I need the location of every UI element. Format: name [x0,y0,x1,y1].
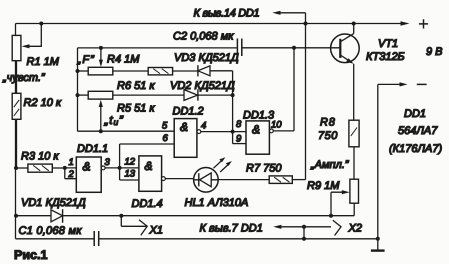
svg-text:R6 51 к: R6 51 к [117,80,155,92]
wire C2 to VT1 base [242,47,340,49]
svg-text:R2 10 к: R2 10 к [24,97,62,109]
wire VD1 bus [16,215,354,217]
wire top +9V bus [16,23,407,25]
wire pin6 feedback [120,144,175,180]
wire R5 to VD2 [113,94,184,96]
svg-text:(К176ЛА7): (К176ЛА7) [389,143,442,155]
node junction ground [376,237,380,241]
node junction X1 [119,214,123,218]
node junction VT1 collector / bus [352,22,356,26]
node junction bottom connector [302,237,306,241]
diode VD1 KD521D [51,210,63,222]
svg-text:1: 1 [69,157,74,168]
svg-text:9 В: 9 В [426,46,443,58]
svg-text:„Ампл.”: „Ампл.” [310,159,350,171]
wire DD1.3 out up to VT1 base [273,48,294,131]
wire bottom bus left [16,238,95,240]
node + terminal arrow [401,21,410,25]
svg-text:DD1.1: DD1.1 [77,143,108,155]
op-amp DD1.2 NAND gate [174,119,197,158]
node junction VD2 line [231,93,235,97]
transistor VT1 KT312B [331,34,360,63]
wire X2 to bottom bus [303,227,305,239]
svg-text:8: 8 [236,119,242,130]
wire K vyv7 / X2 line [277,226,331,228]
diode VD2 KD521D [184,90,198,101]
svg-text:VT1: VT1 [378,38,398,50]
svg-text:12: 12 [125,157,136,168]
svg-text:&: & [83,160,91,174]
svg-text:R7 750: R7 750 [246,163,282,175]
svg-text:R8: R8 [320,117,336,129]
wire DD1.1 out to DD1.4 [105,167,139,169]
svg-text:„F”: „F” [77,54,96,66]
svg-text:2: 2 [68,169,75,180]
svg-text:4: 4 [201,121,206,132]
ground [371,249,385,251]
svg-text:13: 13 [125,169,136,180]
capacitor C1 [94,231,99,246]
svg-text:К выв.7 DD1: К выв.7 DD1 [200,223,263,235]
node junction left bus / R3 [14,166,18,170]
resistor R1 1M potentiometer [12,35,21,60]
svg-text:Х1: Х1 [149,225,163,237]
node junction R5 wiper [99,129,103,133]
node junction X2 top [302,225,306,229]
svg-text:К выв.14 DD1: К выв.14 DD1 [194,8,260,20]
node junction bus2 / R5 row [76,93,80,97]
svg-text:VD3 КД521Д: VD3 КД521Д [174,52,239,64]
node junction R1 wiper / top bus [39,22,43,26]
svg-text:DD1.3: DD1.3 [243,110,275,122]
svg-text:VD1 КД521Д: VD1 КД521Д [21,197,86,209]
node junction R4 wiper / C2 line [99,46,103,50]
wire DD1.4 out to LED [165,178,193,180]
resistor R6 51k [148,68,172,75]
resistor R3 10k [16,167,28,169]
op-amp DD1.4 NAND gate [139,156,162,191]
svg-text:750: 750 [318,130,338,142]
node junction +rail / top bus [304,22,308,26]
op-amp DD1.1 NAND gate [65,168,77,179]
svg-text:С2 0,068 мк: С2 0,068 мк [173,31,234,43]
wire second bus vertical [77,48,79,131]
wire R2 to bottom [16,119,18,168]
svg-text:5: 5 [162,121,168,132]
svg-text:Рис.1: Рис.1 [14,248,47,262]
resistor R8 750 [349,120,359,147]
svg-text:6: 6 [163,133,169,144]
resistor R5 51k potentiometer [78,94,89,96]
svg-text:9: 9 [236,134,242,145]
node junction left bus / VD1 [14,214,18,218]
svg-text:С1 0,068 мк: С1 0,068 мк [19,225,83,237]
resistor R4 1M potentiometer [78,70,89,72]
svg-text:&: & [145,159,153,173]
wire minus rail [378,84,404,250]
op-amp DD1.3 NAND gate [246,121,269,154]
wire R4 to R6 [113,70,148,72]
node junction base line [292,46,296,50]
wire DD1.2 out to DD1.3 [201,131,246,133]
wire bottom bus right [99,238,378,240]
svg-text:&: & [180,120,188,134]
node junction DD1.2 out / DD1.3 in [231,130,235,134]
svg-text:КТ312Б: КТ312Б [366,51,405,63]
svg-text:564ЛА7: 564ЛА7 [398,125,438,137]
svg-text:&: & [252,123,260,137]
svg-text:„tи”: „tи” [104,113,124,127]
svg-text:DD1.2: DD1.2 [173,106,204,118]
resistor R9 1M potentiometer [350,179,359,203]
wire C2 line from bus2 to C2 [78,47,238,49]
wire left bus [15,24,17,239]
svg-text:Х2: Х2 [348,223,362,235]
resistor R2 10k [12,93,21,119]
LED HL1 AL310A [194,168,219,193]
svg-text:DD1.4: DD1.4 [132,198,163,210]
node junction bus2 / R4 row [76,69,80,73]
wire DD1.3 pin9 stub [233,143,246,145]
svg-text:3: 3 [105,157,111,168]
svg-text:R1 1М: R1 1М [27,56,60,68]
svg-text:R9 1М: R9 1М [307,180,340,192]
wire pin5 line [78,130,175,132]
node junction R9 wiper / bus [329,214,333,218]
svg-text:„чувст.”: „чувст.” [2,72,46,84]
node X2 connector [333,220,341,235]
node junction feedback [118,166,122,170]
svg-text:R4 1М: R4 1М [107,54,140,66]
capacitor C2 [237,39,241,57]
svg-text:HL1 АЛ310А: HL1 АЛ310А [185,197,249,209]
diode VD3 KD521D [197,65,199,76]
wire vertical VD3/VD2 to gate inputs [232,71,234,144]
node X1 connector [121,216,146,227]
wire R1 to R2 [16,61,18,94]
resistor R7 750 [218,179,269,181]
svg-text:DD1: DD1 [404,108,426,120]
svg-text:R3 10 к: R3 10 к [21,151,59,163]
svg-text:VD2 КД521Д: VD2 КД521Д [170,80,235,92]
wire K vyv14 arrow [276,13,306,180]
